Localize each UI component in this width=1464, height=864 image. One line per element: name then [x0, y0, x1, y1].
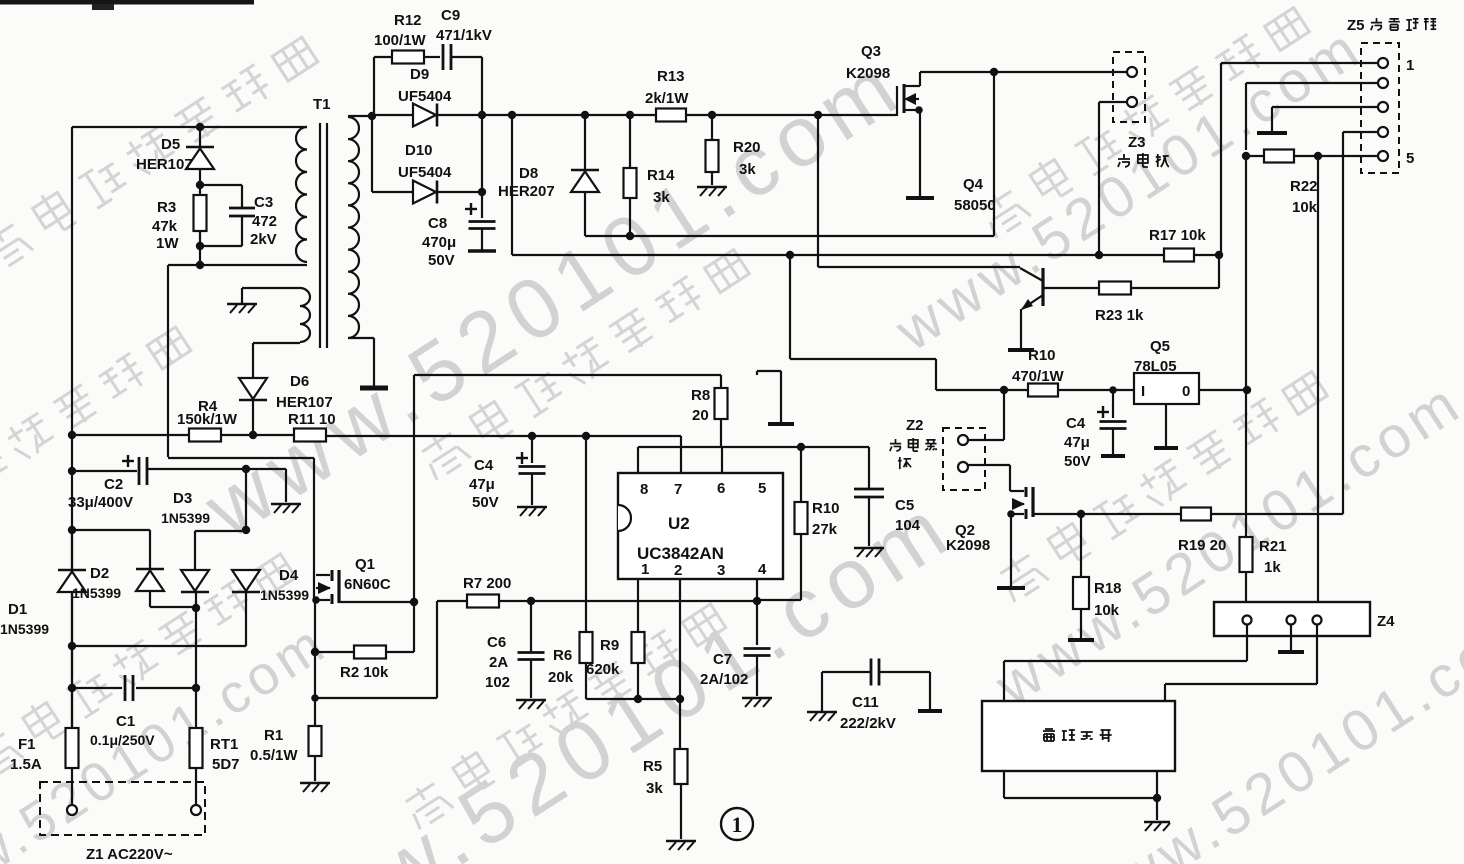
svg-text:100/1W: 100/1W: [374, 32, 427, 49]
svg-text:0.5/1W: 0.5/1W: [250, 747, 298, 764]
svg-text:5: 5: [758, 480, 766, 497]
svg-text:D1: D1: [8, 601, 27, 618]
wire C3 bottom: [241, 216, 243, 246]
resistor R8: [720, 375, 722, 388]
wire +5V vertical x=1246 upper: [1245, 156, 1247, 390]
resistor R10 27k: [800, 447, 802, 502]
transformer T1 core: [319, 123, 321, 348]
wire secondary bottom lead: [348, 337, 374, 339]
wire D9 cathode to main rail: [437, 114, 896, 116]
pin Z5.3: [1378, 102, 1388, 112]
wire secondary top to D9: [372, 114, 413, 116]
svg-text:5D7: 5D7: [212, 756, 240, 773]
pin Z1.1: [67, 805, 77, 815]
svg-text:471/1kV: 471/1kV: [436, 27, 492, 44]
svg-text:10k: 10k: [1094, 602, 1120, 619]
resistor R5: [675, 749, 688, 784]
diode D6: [239, 378, 267, 399]
ground R20: [697, 186, 727, 189]
capacitor C4 47u 50V (left): [516, 457, 528, 459]
svg-text:I: I: [1141, 383, 1145, 400]
wire Q1 source to node: [339, 601, 414, 603]
wire R22 leads: [1246, 155, 1264, 157]
wire: top-left horizontal rail to T1 primary top: [72, 126, 307, 128]
svg-text:47k: 47k: [152, 218, 178, 235]
wire pin2 stub down: [679, 579, 681, 749]
wire RT1 vertical: [195, 688, 197, 728]
wire line to R10 bottom corner: [757, 599, 801, 601]
svg-text:R6: R6: [553, 647, 572, 664]
svg-text:27k: 27k: [812, 521, 838, 538]
transformer T1 secondary winding: [348, 117, 359, 338]
wire x=994 down to clamp line: [993, 72, 995, 236]
wire Z2.2 to Q2 gate: [968, 464, 1010, 466]
wire pin4 stub: [756, 579, 758, 601]
capacitor C11: [870, 659, 873, 686]
hall element box: [982, 701, 1175, 771]
pin Z3.1: [1127, 67, 1137, 77]
svg-text:U2: U2: [668, 514, 690, 533]
pin Z3.2: [1127, 97, 1137, 107]
svg-text:C4: C4: [1066, 415, 1086, 432]
wire D2 bottom jog: [149, 592, 151, 607]
node C4 left top: [528, 432, 536, 440]
svg-text:1W: 1W: [156, 235, 179, 252]
resistor R14: [629, 115, 631, 168]
wire C2 line: [72, 470, 137, 472]
svg-text:1.5A: 1.5A: [10, 756, 42, 773]
wire C2 to D3 node: [147, 468, 246, 470]
wire y=698 to R1: [316, 697, 437, 699]
svg-text:1: 1: [641, 561, 649, 578]
ground C5: [854, 547, 884, 550]
svg-text:104: 104: [895, 517, 921, 534]
wire R7 to line: [499, 600, 531, 602]
wire R6 bottom corner: [585, 663, 587, 699]
svg-text:F1: F1: [18, 736, 36, 753]
svg-text:33μ/400V: 33μ/400V: [68, 494, 133, 511]
svg-text:222/2kV: 222/2kV: [840, 715, 896, 732]
svg-text:D4: D4: [279, 567, 299, 584]
diode D5: [186, 146, 214, 149]
wire Q2 source down to ground: [1010, 514, 1012, 586]
capacitor C1: [124, 675, 127, 701]
resistor R22: [1264, 150, 1294, 163]
wire Z2.1 to R10 input: [968, 439, 1004, 441]
wire RT1 to Z1: [195, 768, 197, 805]
wire low clamp line D8/R14 to x=994: [585, 235, 994, 237]
wire Q2 drain line y=514: [1033, 513, 1181, 515]
wire C9 to D9 cathode node: [451, 56, 482, 58]
resistor R21: [1240, 537, 1253, 572]
wire aux bottom lead: [253, 342, 300, 344]
wire R4 to R11: [221, 434, 294, 436]
transformer T1 auxiliary winding: [300, 288, 310, 342]
svg-text:1N5399: 1N5399: [161, 510, 210, 526]
svg-text:4: 4: [758, 561, 767, 578]
node pin4/C7: [753, 597, 761, 605]
wire R10 input lead: [1004, 389, 1028, 391]
wire node down to R23: [1218, 255, 1220, 288]
svg-text:R10: R10: [1028, 347, 1056, 364]
resistor R6: [580, 632, 593, 663]
resistor R13: [656, 109, 686, 122]
resistor R20: [711, 115, 713, 140]
ground pin5: [768, 422, 794, 426]
connector Z2 dashed box: [943, 428, 985, 490]
node pin2/R5: [676, 695, 684, 703]
svg-text:R1: R1: [264, 727, 283, 744]
ground C11 left: [807, 711, 837, 714]
wire R4 line: [72, 434, 189, 436]
svg-text:R18: R18: [1094, 580, 1122, 597]
svg-text:C2: C2: [104, 476, 123, 493]
wire C5 branch: [868, 447, 870, 489]
node D4 top: [242, 526, 250, 534]
wire drain vertical x=314: [313, 458, 315, 600]
svg-text:R8: R8: [691, 387, 710, 404]
svg-text:R10: R10: [812, 500, 840, 517]
svg-text:C3: C3: [254, 194, 273, 211]
svg-text:R14: R14: [647, 167, 675, 184]
wire x=1246 to R21: [1245, 390, 1247, 537]
node main rail x=512: [508, 111, 516, 119]
resistor R1: [309, 726, 322, 756]
svg-text:Q3: Q3: [861, 43, 881, 60]
svg-text:D9: D9: [410, 66, 429, 83]
wire D10 branch vertical: [371, 116, 373, 192]
wire left rail to C1: [71, 646, 73, 688]
svg-text:R20: R20: [733, 139, 761, 156]
svg-text:R21: R21: [1259, 538, 1287, 555]
wire gate bus x=315 down: [314, 600, 316, 652]
ground stub C2 line: [285, 469, 287, 502]
node Q5 out / +5V vertical: [1243, 386, 1251, 394]
svg-text:2: 2: [674, 562, 682, 579]
wire D6 to R4 line: [252, 401, 254, 435]
svg-text:D8: D8: [519, 165, 538, 182]
capacitor C3: [229, 207, 255, 210]
node R20 top: [708, 111, 716, 119]
ground C4 left: [517, 506, 547, 509]
pin Z5.5: [1378, 151, 1388, 161]
resistor R19: [1181, 508, 1211, 521]
svg-text:R19 20: R19 20: [1178, 537, 1226, 554]
svg-text:K2098: K2098: [946, 537, 990, 554]
svg-text:2kV: 2kV: [250, 231, 277, 248]
svg-text:1N5399: 1N5399: [0, 621, 49, 637]
wire x=512 down to low rail: [511, 115, 513, 255]
circled number 1: [721, 808, 753, 840]
node Z3 branch: [1095, 251, 1103, 259]
node R9 bottom: [634, 695, 642, 703]
ground C7: [742, 697, 772, 700]
wire D5 branch vertical: [199, 127, 201, 195]
svg-text:R2 10k: R2 10k: [340, 664, 389, 681]
ground bar Z5.3: [1257, 131, 1287, 135]
wire vref line y=447: [638, 446, 869, 448]
node R22 right: [1314, 152, 1322, 160]
wire R17 right: [1194, 254, 1219, 256]
svg-text:R11 10: R11 10: [288, 411, 336, 428]
pin Z1.2: [191, 805, 201, 815]
svg-text:1N5399: 1N5399: [260, 587, 309, 603]
node Q3 drain / clamp: [990, 68, 998, 76]
wire VCC down to IC pin 7: [680, 436, 682, 473]
svg-text:HER107: HER107: [276, 394, 333, 411]
svg-text:50V: 50V: [472, 494, 499, 511]
wire R1 vertical: [314, 652, 316, 726]
svg-text:50V: 50V: [1064, 453, 1091, 470]
capacitor C6: [530, 601, 532, 652]
transistor Q3 K2098 MOSFET: [896, 86, 898, 116]
svg-text:10k: 10k: [1292, 199, 1318, 216]
svg-text:20: 20: [692, 407, 709, 424]
connector Z5 dashed box: [1361, 43, 1399, 173]
wire pin1 stub to R9: [637, 579, 639, 632]
wire R19 to Z5.4 vertical: [1211, 513, 1343, 515]
label Z3 qudianji: [1118, 154, 1130, 167]
node D3/D4 top: [242, 465, 250, 473]
ground bar Q4 emitter: [1008, 348, 1034, 352]
pin Z2.2: [958, 462, 968, 472]
node C4 top: [1109, 386, 1117, 394]
svg-text:C7: C7: [713, 651, 732, 668]
wire x=414 down to R2: [413, 602, 415, 652]
svg-text:UF5404: UF5404: [398, 164, 452, 181]
wire D2 stub: [149, 530, 151, 569]
wire D4 vertical top: [245, 469, 247, 530]
thermistor RT1: [190, 728, 203, 768]
wire pin5 ground stub: [757, 370, 781, 372]
wire R9 bottom: [637, 663, 639, 699]
node R14 bottom: [626, 232, 634, 240]
wire C11 left to ground: [822, 671, 871, 673]
pin Z4.3: [1313, 616, 1322, 625]
wire C3 branch top: [200, 184, 242, 186]
wire R7 left lead corner: [436, 601, 438, 698]
node R17/Z5.1: [1215, 251, 1223, 259]
svg-text:2A/102: 2A/102: [700, 671, 748, 688]
wire to Q4 collector: [818, 266, 1020, 268]
watermark layer: [0, 30, 319, 273]
wire to F1: [71, 688, 73, 728]
node R3/C3 bottom: [196, 242, 204, 250]
node left rail R4 line: [68, 431, 76, 439]
wire D4 bottom: [245, 592, 247, 646]
svg-text:5: 5: [1406, 150, 1414, 167]
node feedback takeoff x=818: [814, 111, 822, 119]
wire x=1318 vertical: [1317, 156, 1319, 620]
svg-text:R12: R12: [394, 12, 422, 29]
svg-text:D3: D3: [173, 490, 192, 507]
wire Q4 base to R23: [1043, 287, 1099, 289]
svg-text:R23 1k: R23 1k: [1095, 307, 1144, 324]
svg-text:470μ: 470μ: [422, 234, 456, 251]
wire pin6 stub: [721, 447, 723, 473]
wire C5 bottom: [868, 497, 870, 546]
node R1/y698: [311, 694, 319, 702]
svg-text:1: 1: [732, 812, 743, 837]
node R18 top: [1077, 510, 1085, 518]
transistor Q2 K2098 MOSFET: [1010, 490, 1024, 492]
wire x=818 down: [817, 115, 819, 267]
wire Z5.5: [1318, 155, 1378, 157]
diode D10: [413, 181, 436, 204]
svg-text:20k: 20k: [548, 669, 574, 686]
svg-text:1N5399: 1N5399: [72, 585, 121, 601]
wire Q5 ground pin: [1165, 404, 1167, 446]
ground R1: [300, 782, 330, 785]
svg-text:C4: C4: [474, 457, 494, 474]
wire secondary top lead: [348, 115, 374, 117]
wire R6 vertical upper: [585, 436, 587, 632]
ground bar R18: [1068, 638, 1094, 642]
pin Z4.2: [1287, 616, 1296, 625]
resistor R11: [294, 429, 326, 442]
wire R5 to ground: [680, 784, 682, 839]
svg-text:6N60C: 6N60C: [344, 576, 391, 593]
wire x=168 rail down: [167, 265, 169, 457]
wire x=414 up to R8 line: [413, 375, 415, 602]
wire Z4.2 ground: [1290, 624, 1292, 650]
svg-text:Z4: Z4: [1377, 613, 1395, 630]
ground bar Q2: [997, 586, 1025, 590]
svg-text:D10: D10: [405, 142, 433, 159]
regulator Q5 78L05 box: [1134, 373, 1199, 404]
svg-text:Q4: Q4: [963, 176, 984, 193]
wire D1/D2 top line: [72, 529, 150, 531]
svg-text:8: 8: [640, 481, 648, 498]
wire hall bottom loop: [1003, 771, 1005, 798]
wire Z4.3 to hall line: [1316, 624, 1318, 684]
svg-text:0.1μ/250V: 0.1μ/250V: [90, 732, 155, 748]
svg-text:47μ: 47μ: [1064, 434, 1090, 451]
resistor R4: [189, 429, 221, 442]
wire R23 to Z5.1 vertical: [1131, 287, 1219, 289]
node D5/R3/C3: [196, 181, 204, 189]
node hall ground: [1153, 794, 1161, 802]
wire Z5.3 to ground: [1272, 106, 1378, 108]
wire Z5.4: [1343, 131, 1378, 133]
svg-text:R7 200: R7 200: [463, 575, 511, 592]
node R14 top: [626, 111, 634, 119]
node R6 top: [582, 432, 590, 440]
wire staircase to regulator line: [789, 255, 791, 359]
svg-text:HER207: HER207: [498, 183, 555, 200]
capacitor C7: [756, 601, 758, 645]
wire Z4.1 to hall line: [1246, 624, 1248, 661]
node D1 top line: [68, 526, 76, 534]
wire D10 anode lead: [372, 191, 413, 193]
diode D1: [58, 569, 86, 572]
svg-text:2k/1W: 2k/1W: [645, 90, 689, 107]
svg-text:Z5: Z5: [1347, 17, 1365, 34]
resistor R17: [1164, 249, 1194, 262]
wire R1 to ground: [314, 756, 316, 781]
resistor R23: [1099, 282, 1131, 295]
diode D3: [181, 570, 209, 591]
wire to ground stub: [246, 468, 286, 470]
connector Z3 dashed box: [1113, 52, 1145, 122]
wire primary bottom to x=168 rail: [168, 264, 307, 266]
capacitor C9: [442, 44, 445, 70]
svg-text:R13: R13: [657, 68, 685, 85]
wire: left vertical rail x=72: [71, 127, 73, 728]
resistor R18: [1080, 514, 1082, 577]
capacitor C8 electrolytic: [465, 208, 477, 210]
svg-text:150k/1W: 150k/1W: [177, 411, 238, 428]
transistor Q4 58050 NPN: [1041, 268, 1044, 306]
node R22 left: [1242, 152, 1250, 160]
node on top rail above D5: [196, 123, 204, 131]
ground R5: [666, 840, 696, 843]
wire hall ground stem: [1156, 798, 1158, 820]
wire pin8 stub: [637, 447, 639, 473]
svg-text:C9: C9: [441, 7, 460, 24]
svg-text:C11: C11: [852, 694, 879, 711]
ground hall: [1144, 821, 1170, 824]
svg-text:D2: D2: [90, 565, 109, 582]
node C1 right: [192, 684, 200, 692]
wire low rail y=255: [512, 254, 1164, 256]
resistor R10 470/1W: [1028, 384, 1058, 397]
svg-text:R5: R5: [643, 758, 662, 775]
node C2 line left: [68, 467, 76, 475]
resistor R2: [386, 651, 414, 653]
node R10 input / Z2.1: [1000, 386, 1008, 394]
svg-text:2A: 2A: [489, 654, 508, 671]
wire to R12: [374, 56, 392, 58]
wire C11 right to bar: [879, 671, 930, 673]
capacitor C2 electrolytic: [122, 460, 134, 462]
svg-text:3: 3: [717, 562, 725, 579]
svg-text:T1: T1: [313, 96, 331, 113]
ground bar Q5: [1154, 446, 1178, 450]
ground bar secondary return: [360, 386, 388, 391]
svg-text:R3: R3: [157, 199, 176, 216]
wire drive line y=601: [531, 600, 757, 602]
ground bar Z4.2: [1278, 650, 1304, 654]
svg-text:3k: 3k: [653, 189, 670, 206]
svg-text:D5: D5: [161, 136, 180, 153]
ground bar Q3 source: [906, 196, 934, 200]
label Z2 qudianreban: [890, 439, 901, 451]
wire R11 to pin7 corner: [326, 435, 681, 437]
diode D8: [584, 115, 586, 170]
wire D10 cathode to node: [437, 191, 482, 193]
pin Z5.1: [1378, 58, 1388, 68]
wire C8 branch: [481, 115, 483, 218]
svg-text:D6: D6: [290, 373, 309, 390]
wire Q3 drain line to Z3: [920, 71, 1126, 73]
wire C1 line: [72, 687, 122, 689]
svg-text:C8: C8: [428, 215, 447, 232]
transformer T1 primary winding: [296, 127, 307, 262]
svg-text:HER107: HER107: [136, 156, 193, 173]
svg-text:R17 10k: R17 10k: [1149, 227, 1206, 244]
node D8 top: [581, 111, 589, 119]
svg-text:6: 6: [717, 480, 725, 497]
node R10 top (27k): [797, 443, 805, 451]
wire Z3.2 to x=1099: [1099, 101, 1127, 103]
svg-text:470/1W: 470/1W: [1012, 368, 1065, 385]
wire R8 line y=375: [414, 374, 721, 376]
svg-text:Q1: Q1: [355, 556, 375, 573]
wire D1 bottom: [71, 593, 73, 646]
wire R10 to C4 node: [1058, 389, 1134, 391]
scan edge mark top-left: [0, 0, 254, 5]
